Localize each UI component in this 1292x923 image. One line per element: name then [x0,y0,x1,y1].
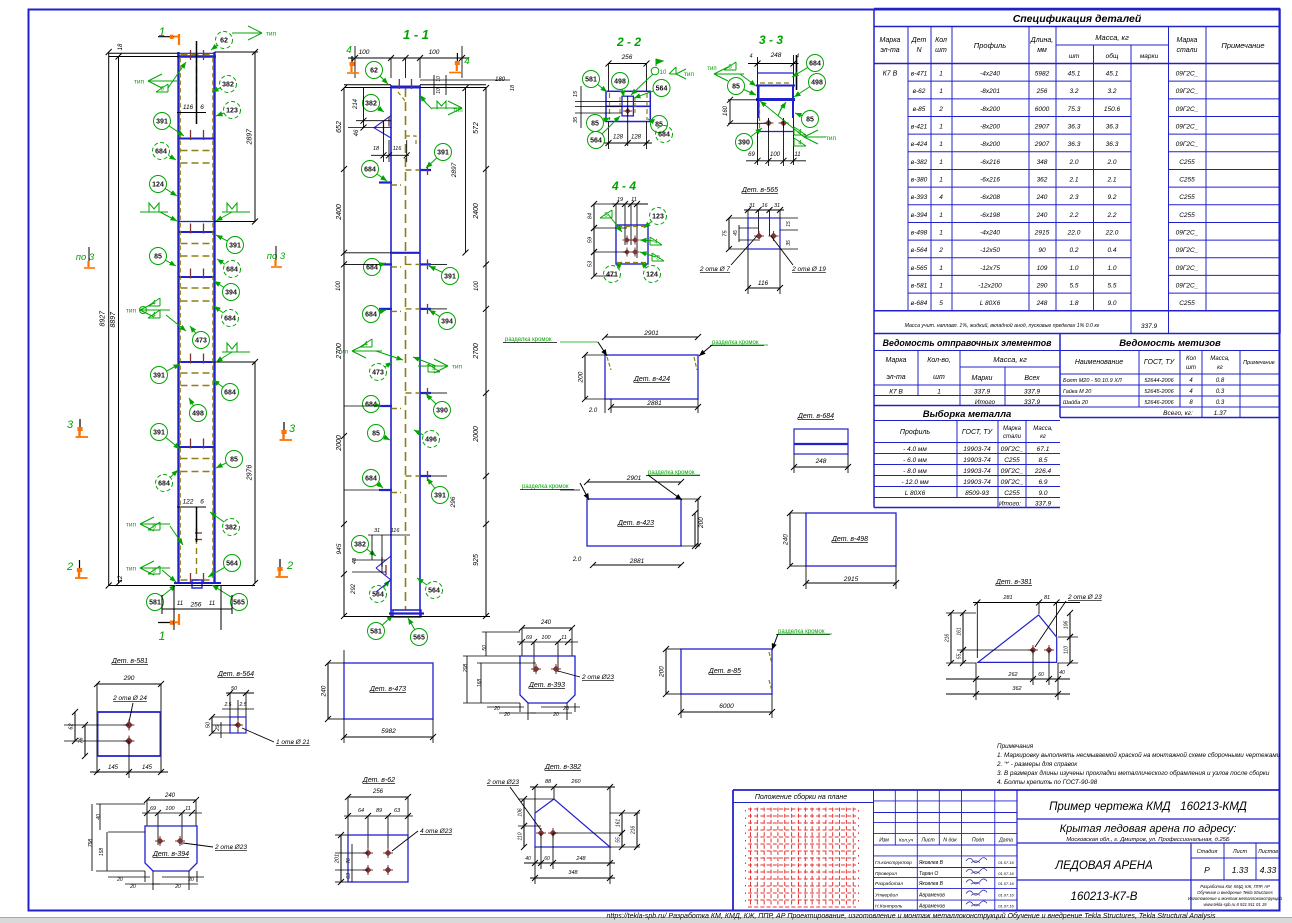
svg-text:35: 35 [573,116,579,123]
svg-text:581: 581 [370,629,382,636]
svg-text:25: 25 [215,725,221,732]
svg-text:- 4.0 мм: - 4.0 мм [903,446,927,453]
svg-text:Итого:: Итого: [999,501,1021,508]
svg-text:Гл.конструктор: Гл.конструктор [875,860,912,866]
svg-text:2 отв Ø23: 2 отв Ø23 [581,674,614,681]
svg-text:тип: тип [453,108,462,114]
svg-text:564: 564 [656,86,668,93]
svg-text:тип: тип [452,364,463,371]
svg-text:394: 394 [225,290,237,297]
svg-text:кг: кг [1040,434,1046,440]
svg-text:Кол-во,: Кол-во, [927,357,951,364]
svg-text:45.1: 45.1 [1068,71,1081,78]
svg-text:69: 69 [526,635,532,641]
svg-text:925: 925 [473,554,480,566]
svg-text:3 - 3: 3 - 3 [759,33,783,47]
svg-text:Болт М20 - 50.10.9 ХЛ: Болт М20 - 50.10.9 ХЛ [1063,378,1122,384]
svg-text:2907: 2907 [1034,141,1050,148]
svg-text:2976: 2976 [247,465,254,482]
svg-text:2.2: 2.2 [1068,212,1078,219]
svg-text:4: 4 [654,239,658,246]
svg-text:Масса, кг: Масса, кг [1095,33,1129,42]
svg-text:69: 69 [748,152,755,158]
svg-text:337.9: 337.9 [1024,389,1041,396]
svg-text:2: 2 [286,560,293,572]
svg-text:471: 471 [606,272,618,279]
svg-text:2.3: 2.3 [1068,194,1078,201]
svg-text:09Г2С_: 09Г2С_ [1176,229,1199,236]
svg-text:Обучение и внедрение Tekla Str: Обучение и внедрение Tekla Structures [1197,890,1274,895]
svg-text:1: 1 [939,229,943,236]
svg-text:1: 1 [939,141,943,148]
svg-text:С255: С255 [1004,490,1020,497]
svg-text:31: 31 [774,203,780,209]
svg-text:20: 20 [174,884,181,890]
svg-text:шт: шт [935,47,947,54]
svg-text:ЛЕДОВАЯ АРЕНА: ЛЕДОВАЯ АРЕНА [1054,860,1153,872]
svg-text:50: 50 [482,645,488,651]
svg-text:2700: 2700 [336,343,343,360]
svg-text:4: 4 [939,194,943,201]
svg-text:С255: С255 [1179,159,1195,166]
svg-text:2400: 2400 [473,203,480,220]
svg-text:100: 100 [429,49,440,56]
svg-text:240: 240 [1036,194,1048,201]
svg-text:-8х200: -8х200 [980,123,1000,130]
svg-text:10: 10 [436,76,442,82]
svg-text:марки: марки [1140,53,1159,60]
svg-text:тип: тип [126,308,137,315]
svg-text:Утвердил: Утвердил [875,892,898,898]
svg-text:945: 945 [336,543,343,554]
svg-text:19903-74: 19903-74 [963,446,991,453]
svg-text:2000: 2000 [473,426,480,443]
svg-text:1: 1 [939,282,943,289]
svg-text:19903-74: 19903-74 [963,479,991,486]
svg-text:Выборка металла: Выборка металла [923,409,1012,420]
svg-text:4: 4 [364,341,368,348]
svg-text:296: 296 [450,496,457,508]
svg-text:20: 20 [129,884,136,890]
svg-text:01.07.16: 01.07.16 [998,892,1014,897]
svg-text:01.07.16: 01.07.16 [998,860,1014,865]
svg-text:в-424: в-424 [911,141,928,148]
svg-text:Кол: Кол [935,37,947,44]
svg-text:16: 16 [761,203,768,209]
svg-text:40: 40 [96,814,102,820]
svg-text:1: 1 [939,176,943,183]
svg-text:2881: 2881 [629,558,645,565]
svg-text:684: 684 [809,61,821,68]
svg-text:Дет. в-423: Дет. в-423 [617,520,654,527]
svg-text:652: 652 [336,121,343,133]
svg-text:20: 20 [116,877,123,883]
svg-text:3: 3 [67,419,74,431]
svg-text:168: 168 [477,679,483,688]
svg-text:565: 565 [413,635,425,642]
svg-text:15: 15 [573,90,579,97]
svg-text:общ: общ [1106,52,1119,60]
svg-text:5: 5 [939,300,943,307]
svg-text:Авраменов: Авраменов [918,892,945,898]
svg-text:62: 62 [220,38,228,45]
svg-text:248: 248 [1036,300,1048,307]
svg-text:15: 15 [786,221,792,227]
svg-text:59: 59 [588,237,594,243]
svg-text:2.0: 2.0 [588,408,598,414]
svg-text:nttps://tekla-spb.ru/ Разрабо: nttps://tekla-spb.ru/ Разработка КМ, КМД… [606,912,1215,920]
svg-text:0.3: 0.3 [1216,400,1225,406]
svg-text:Примечание: Примечание [1243,360,1275,366]
svg-text:100: 100 [770,152,781,158]
svg-text:в-684: в-684 [911,300,928,307]
svg-text:Марка: Марка [880,37,901,44]
svg-text:Изготовление и монтаж металлок: Изготовление и монтаж металлоконструкций [1188,896,1283,901]
svg-text:20: 20 [187,877,194,883]
svg-text:5982: 5982 [381,728,396,735]
svg-text:11: 11 [794,152,800,158]
svg-text:496: 496 [425,437,437,444]
svg-text:Дет: Дет [911,37,927,44]
svg-text:382: 382 [365,101,377,108]
svg-text:в-382: в-382 [911,159,928,166]
svg-text:337.9: 337.9 [974,389,991,396]
svg-text:Яковлев В: Яковлев В [918,860,944,866]
svg-text:Кол.уч: Кол.уч [899,838,914,844]
svg-text:391: 391 [153,430,165,437]
svg-text:256: 256 [621,54,633,61]
svg-text:6: 6 [152,524,156,531]
svg-text:тип: тип [826,135,837,142]
svg-text:10: 10 [660,70,667,76]
svg-text:8.5: 8.5 [1038,457,1047,464]
svg-text:256: 256 [372,789,384,795]
svg-text:5.5: 5.5 [1107,282,1116,289]
svg-text:2 отв Ø 23: 2 отв Ø 23 [1067,594,1102,601]
svg-text:Примечание: Примечание [1221,41,1264,50]
svg-text:76: 76 [79,737,85,744]
svg-text:2: 2 [938,247,943,254]
svg-text:19903-74: 19903-74 [963,468,991,475]
svg-text:09Г2С_: 09Г2С_ [1001,479,1024,486]
svg-text:11: 11 [561,635,567,641]
svg-text:6000: 6000 [1035,106,1050,113]
svg-text:09Г2С_: 09Г2С_ [1176,123,1199,130]
svg-text:Дет. в-564: Дет. в-564 [217,671,254,678]
svg-text:684: 684 [365,476,377,483]
svg-text:-6х216: -6х216 [980,176,1000,183]
svg-text:Изм: Изм [879,838,889,844]
svg-text:109: 109 [1037,265,1048,272]
svg-text:564: 564 [590,138,602,145]
svg-text:4 - 4: 4 - 4 [611,179,636,193]
svg-text:шт: шт [933,374,945,381]
svg-text:в-471: в-471 [911,71,928,78]
svg-text:-12х200: -12х200 [978,282,1002,289]
svg-text:18: 18 [118,43,124,50]
svg-text:1: 1 [939,88,943,95]
svg-text:240: 240 [1036,212,1048,219]
svg-text:в-380: в-380 [911,176,928,183]
svg-text:31: 31 [374,528,380,534]
svg-text:Дет. в-393: Дет. в-393 [528,682,565,689]
svg-text:200: 200 [578,371,585,383]
svg-text:8927: 8927 [100,310,107,327]
svg-text:- 12.0 мм: - 12.0 мм [901,479,929,486]
svg-text:09Г2С_: 09Г2С_ [1176,71,1199,78]
svg-text:8: 8 [656,255,660,262]
svg-text:123: 123 [652,214,664,221]
svg-text:145: 145 [108,765,119,771]
svg-text:Дет. в-62: Дет. в-62 [362,777,395,784]
svg-text:2700: 2700 [473,343,480,360]
svg-text:1: 1 [939,265,943,272]
svg-text:2: 2 [938,106,943,113]
svg-text:Марка: Марка [1177,37,1198,44]
svg-text:2.5: 2.5 [239,702,247,708]
svg-text:в-85: в-85 [913,106,926,113]
svg-text:Московская обл., г. Дмитров, у: Московская обл., г. Дмитров, ул. Професс… [1066,837,1230,843]
svg-text:281: 281 [1002,595,1012,601]
svg-text:150.6: 150.6 [1104,106,1121,113]
svg-text:684: 684 [224,316,236,323]
svg-text:1.0: 1.0 [1069,265,1078,272]
svg-text:-12х75: -12х75 [980,265,1000,272]
svg-text:145: 145 [142,765,153,771]
svg-text:2.1: 2.1 [1106,176,1116,183]
svg-text:Стадия: Стадия [1197,849,1218,855]
svg-text:214: 214 [353,98,359,110]
svg-text:в-564: в-564 [911,247,928,254]
svg-text:01.07.16: 01.07.16 [998,903,1014,908]
svg-text:-8х200: -8х200 [980,141,1000,148]
svg-text:2897: 2897 [451,162,458,178]
svg-text:216: 216 [945,634,951,644]
svg-text:0.4: 0.4 [1107,247,1116,254]
svg-text:Дет. в-394: Дет. в-394 [152,851,189,858]
svg-text:36.3: 36.3 [1106,123,1119,130]
svg-text:2.0: 2.0 [1106,159,1116,166]
svg-text:9.0: 9.0 [1107,300,1116,307]
svg-text:Проверил: Проверил [875,871,897,877]
svg-text:Шайба 20: Шайба 20 [1063,399,1089,406]
svg-text:2 отв Ø 24: 2 отв Ø 24 [112,695,147,702]
svg-text:391: 391 [434,493,446,500]
svg-text:4: 4 [464,56,470,67]
svg-text:100: 100 [541,635,551,641]
svg-text:Марки: Марки [972,375,993,382]
svg-text:75: 75 [723,230,729,237]
svg-text:337.9: 337.9 [1024,399,1041,406]
svg-text:4: 4 [346,45,352,56]
svg-text:498: 498 [811,80,823,87]
svg-text:2897: 2897 [247,128,254,146]
svg-text:Масса,: Масса, [1033,426,1052,432]
svg-text:10: 10 [436,88,442,94]
svg-text:Наименование: Наименование [1075,359,1123,366]
svg-text:22.0: 22.0 [1067,229,1081,236]
svg-text:0.2: 0.2 [1069,247,1078,254]
svg-text:Подп: Подп [972,838,985,844]
svg-text:1.8: 1.8 [1069,300,1078,307]
svg-text:581: 581 [585,77,597,84]
svg-text:эл-та: эл-та [880,47,899,54]
svg-text:Профиль: Профиль [900,429,931,436]
svg-text:Яковлев В: Яковлев В [918,881,944,887]
svg-text:8: 8 [604,212,608,219]
svg-text:200: 200 [698,517,705,529]
svg-text:124: 124 [152,182,164,189]
svg-text:в-394: в-394 [911,212,928,219]
svg-text:116: 116 [391,528,401,534]
svg-text:- 6.0 мм: - 6.0 мм [903,457,927,464]
svg-text:81: 81 [1044,595,1050,601]
svg-text:Авраменов: Авраменов [918,903,945,909]
svg-text:292: 292 [351,583,357,595]
svg-text:69: 69 [150,806,156,812]
svg-text:Спецификация деталей: Спецификация деталей [1013,13,1142,25]
svg-text:4: 4 [749,54,752,60]
svg-text:85: 85 [230,457,238,464]
svg-text:18: 18 [373,146,380,152]
svg-text:тип: тип [707,66,716,72]
svg-text:2.0: 2.0 [1068,159,1078,166]
svg-text:1: 1 [939,123,943,130]
svg-text:116: 116 [393,146,403,152]
svg-text:8897: 8897 [110,311,117,328]
svg-text:55: 55 [616,837,622,843]
svg-text:11: 11 [209,601,215,607]
svg-text:46: 46 [354,129,360,136]
svg-text:572: 572 [473,122,480,134]
svg-text:1: 1 [939,212,943,219]
svg-text:1: 1 [159,629,166,643]
svg-text:382: 382 [354,542,366,549]
svg-text:50: 50 [206,721,212,728]
svg-text:4: 4 [152,312,156,319]
svg-text:85: 85 [806,117,814,124]
svg-text:С255: С255 [1179,176,1195,183]
svg-text:4.33: 4.33 [1260,865,1277,875]
svg-text:684: 684 [158,481,170,488]
svg-text:76: 76 [346,858,352,864]
svg-text:216: 216 [631,826,637,836]
svg-text:-8х200: -8х200 [980,106,1000,113]
svg-text:5982: 5982 [1035,71,1050,78]
svg-text:Лист: Лист [920,838,935,844]
svg-text:4: 4 [152,300,156,307]
svg-text:шт: шт [1069,53,1080,60]
svg-text:Дет. в-684: Дет. в-684 [797,413,834,420]
svg-text:337.9: 337.9 [1141,323,1158,330]
svg-text:90: 90 [1038,247,1046,254]
svg-text:2907: 2907 [1034,123,1050,130]
svg-text:52646-2006: 52646-2006 [1144,400,1174,406]
svg-text:2901: 2901 [626,475,642,482]
svg-text:35: 35 [786,240,792,246]
svg-text:123: 123 [226,108,238,115]
svg-text:тип: тип [126,522,137,529]
svg-text:Разработка КМ, КМД, КЖ, ППР, А: Разработка КМ, КМД, КЖ, ППР, АР [1200,884,1270,889]
svg-text:22.0: 22.0 [1105,229,1119,236]
svg-text:11: 11 [631,197,637,203]
svg-text:стали: стали [1177,47,1198,54]
svg-text:Дет. в-424: Дет. в-424 [633,376,670,383]
svg-text:в-565: в-565 [911,265,928,272]
svg-text:в-581: в-581 [911,282,928,289]
svg-text:-6х216: -6х216 [980,159,1000,166]
svg-text:6: 6 [200,499,204,506]
svg-text:684: 684 [365,312,377,319]
svg-text:Длина,: Длина, [1030,37,1054,44]
svg-text:798: 798 [88,839,94,848]
svg-text:18: 18 [510,84,516,91]
svg-text:09Г2С_: 09Г2С_ [1176,282,1199,289]
svg-text:85: 85 [372,431,380,438]
svg-text:362: 362 [1012,686,1021,692]
svg-text:63: 63 [346,873,352,879]
svg-text:684: 684 [658,132,670,139]
svg-text:248: 248 [575,856,586,862]
svg-text:2.5: 2.5 [224,702,232,708]
svg-text:11: 11 [177,601,183,607]
svg-text:240: 240 [540,620,552,626]
svg-text:2 отв Ø 19: 2 отв Ø 19 [791,266,826,273]
svg-text:564: 564 [226,561,238,568]
svg-text:N док: N док [943,838,957,844]
svg-text:208: 208 [463,664,469,674]
svg-text:226.4: 226.4 [1034,468,1052,475]
svg-text:2915: 2915 [843,576,859,583]
svg-text:36.3: 36.3 [1068,141,1081,148]
svg-text:106: 106 [518,808,524,817]
svg-text:01.07.16: 01.07.16 [998,881,1014,886]
svg-text:3. В размерах длины изучены пр: 3. В размерах длины изучены прокладки ме… [997,769,1270,777]
svg-text:2400: 2400 [336,204,343,221]
svg-text:09Г2С_: 09Г2С_ [1176,247,1199,254]
svg-text:382: 382 [222,82,234,89]
svg-text:Таран О: Таран О [919,871,938,877]
svg-text:100: 100 [165,806,175,812]
svg-text:Дет. в-581: Дет. в-581 [111,658,148,665]
svg-text:67.1: 67.1 [1037,446,1050,453]
svg-text:200: 200 [659,666,666,678]
svg-text:564: 564 [428,588,440,595]
svg-text:19903-74: 19903-74 [963,457,991,464]
svg-text:337.9: 337.9 [1035,501,1052,508]
svg-text:Дет. в-382: Дет. в-382 [544,764,581,771]
svg-text:362: 362 [1037,176,1048,183]
svg-text:мм: мм [1037,47,1047,54]
svg-text:6: 6 [728,64,732,71]
svg-text:53: 53 [588,260,594,267]
svg-text:160: 160 [723,105,729,116]
svg-text:390: 390 [436,408,448,415]
svg-text:116: 116 [758,280,769,287]
svg-text:2.2: 2.2 [1106,212,1116,219]
svg-text:3.2: 3.2 [1069,88,1078,95]
svg-text:0.8: 0.8 [1216,378,1225,384]
svg-text:Дет. в-473: Дет. в-473 [369,686,406,693]
svg-text:2.0: 2.0 [572,557,582,563]
svg-text:84: 84 [588,213,594,219]
svg-text:348: 348 [1037,159,1048,166]
svg-text:-4х240: -4х240 [980,229,1000,236]
svg-text:09Г2С_: 09Г2С_ [1176,88,1199,95]
svg-text:564: 564 [372,592,384,599]
svg-text:248: 248 [815,458,827,465]
svg-text:248: 248 [770,52,782,59]
